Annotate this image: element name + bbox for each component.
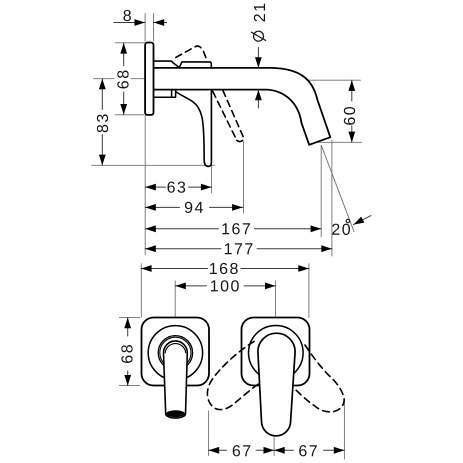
svg-text:100: 100: [210, 278, 241, 295]
svg-text:94: 94: [184, 200, 205, 217]
svg-text:168: 168: [209, 261, 240, 278]
svg-text:60: 60: [342, 105, 359, 126]
svg-text:8: 8: [123, 8, 133, 25]
svg-text:83: 83: [95, 112, 112, 133]
svg-text:63: 63: [167, 180, 188, 197]
svg-text:20: 20: [331, 222, 352, 239]
svg-text:177: 177: [224, 241, 255, 258]
svg-text:68: 68: [116, 68, 133, 89]
svg-text:68: 68: [120, 343, 137, 364]
svg-text:167: 167: [221, 221, 252, 238]
svg-text:67: 67: [298, 443, 319, 460]
svg-text:67: 67: [232, 443, 253, 460]
svg-text:21: 21: [252, 1, 269, 22]
